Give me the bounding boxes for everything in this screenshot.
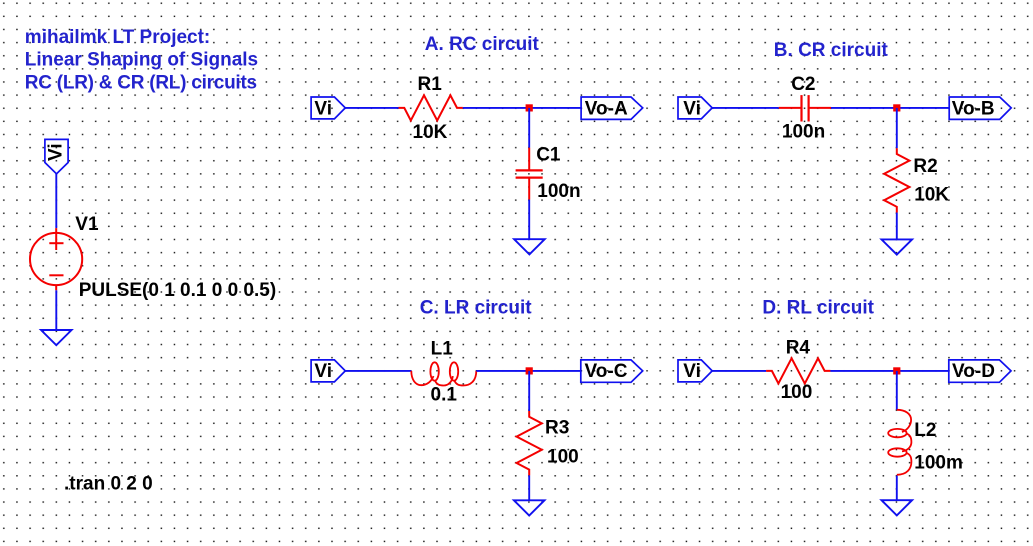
ground	[882, 239, 913, 254]
wire	[896, 371, 898, 410]
resistor R1	[399, 95, 463, 120]
wire	[528, 200, 530, 240]
comment text title	[25, 27, 258, 93]
wire	[528, 475, 530, 500]
svg-text:C2: C2	[791, 74, 815, 95]
svg-text:R3: R3	[545, 418, 569, 439]
svg-text:mihailmk LT Project:: mihailmk LT Project:	[25, 27, 210, 48]
svg-text:100n: 100n	[537, 181, 580, 202]
svg-text:V1: V1	[75, 214, 99, 235]
wire	[896, 108, 898, 148]
svg-text:0.1: 0.1	[431, 384, 458, 405]
svg-text:R1: R1	[418, 74, 443, 95]
svg-text:L1: L1	[431, 339, 454, 360]
port flag Vi (input of circuit D)	[678, 360, 712, 382]
resistor R2	[884, 148, 909, 212]
wire	[528, 108, 530, 148]
svg-text:.tran 0 2 0: .tran 0 2 0	[64, 474, 153, 495]
ground	[882, 500, 913, 515]
node junction	[526, 367, 533, 374]
svg-text:RC (LR) & CR (RL) circuits: RC (LR) & CR (RL) circuits	[25, 72, 257, 93]
wire	[830, 370, 948, 372]
capacitor C2	[779, 95, 831, 121]
svg-text:Vo-D: Vo-D	[952, 361, 995, 382]
svg-text:R4: R4	[786, 338, 811, 359]
svg-text:D. RL circuit: D. RL circuit	[762, 298, 874, 319]
svg-text:Vo-C: Vo-C	[585, 361, 628, 382]
svg-text:Vi: Vi	[314, 98, 332, 119]
wire	[55, 174, 57, 228]
svg-text:C. LR circuit: C. LR circuit	[420, 298, 533, 319]
port flag Vi (rotated, at source)	[45, 139, 68, 173]
ground	[514, 239, 545, 254]
svg-text:100n: 100n	[782, 121, 825, 142]
svg-text:Vi: Vi	[46, 143, 67, 161]
wire	[528, 371, 530, 411]
svg-text:100m: 100m	[914, 452, 963, 473]
port flag Vo-A	[581, 97, 643, 119]
node junction	[893, 104, 900, 111]
svg-text:A. RC circuit: A. RC circuit	[425, 34, 540, 55]
ground	[514, 500, 545, 515]
svg-text:Vi: Vi	[683, 361, 701, 382]
voltage source V1	[30, 228, 82, 290]
svg-text:Vi: Vi	[314, 361, 332, 382]
ground	[41, 330, 72, 345]
capacitor C1	[516, 148, 543, 200]
svg-text:PULSE(0 1 0.1 0 0 0.5): PULSE(0 1 0.1 0 0 0.5)	[79, 280, 277, 301]
svg-text:Vo-A: Vo-A	[585, 98, 628, 119]
wire	[896, 213, 898, 240]
port flag Vi (input of circuit A)	[311, 97, 345, 119]
wire	[55, 290, 57, 330]
resistor R3	[517, 411, 542, 475]
wire	[476, 370, 580, 372]
svg-text:10K: 10K	[413, 122, 448, 143]
wire	[896, 476, 898, 501]
svg-text:100: 100	[781, 382, 813, 403]
wire	[712, 107, 779, 109]
svg-text:R2: R2	[913, 156, 937, 177]
node junction	[526, 104, 533, 111]
svg-text:Vo-B: Vo-B	[952, 98, 995, 119]
port flag Vi (input of circuit C)	[311, 360, 345, 382]
svg-text:10K: 10K	[914, 185, 949, 206]
inductor L1	[411, 362, 476, 385]
wire	[831, 107, 949, 109]
wire	[463, 107, 581, 109]
wire	[345, 370, 411, 372]
wire	[345, 107, 398, 109]
inductor L2	[888, 410, 911, 475]
port flag Vi (input of circuit B)	[678, 97, 712, 119]
port flag Vo-D	[949, 360, 1011, 382]
svg-text:Linear Shaping of Signals: Linear Shaping of Signals	[25, 50, 258, 71]
svg-text:Vi: Vi	[683, 98, 701, 119]
port flag Vo-C	[581, 360, 643, 382]
node junction	[893, 367, 900, 374]
port flag Vo-B	[949, 97, 1011, 119]
resistor R4	[766, 358, 830, 383]
svg-text:B. CR circuit: B. CR circuit	[774, 40, 889, 61]
svg-text:C1: C1	[536, 145, 561, 166]
svg-text:L2: L2	[914, 420, 936, 441]
wire	[712, 370, 766, 372]
svg-text:100: 100	[547, 447, 579, 468]
